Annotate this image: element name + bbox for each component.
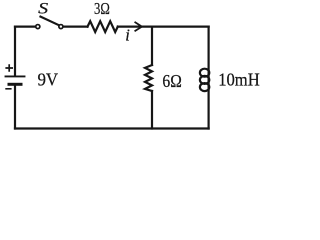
wire top-left: corner to switch	[15, 26, 35, 28]
resistor R1 3ohm zigzag	[88, 21, 118, 32]
wire: left vertical lower (battery to bottom corner)	[14, 85, 16, 128]
current arrow i	[135, 22, 142, 30]
battery plus sign	[5, 64, 13, 71]
switch contact circle left	[36, 25, 40, 29]
svg-text:9V: 9V	[38, 70, 59, 90]
svg-text:i: i	[125, 26, 130, 45]
wire: right vertical	[208, 27, 210, 129]
svg-text:6Ω: 6Ω	[162, 71, 181, 91]
wire: switch to resistor R1	[64, 26, 88, 28]
svg-text:10mH: 10mH	[218, 70, 260, 90]
resistor R2 6ohm vertical zigzag	[145, 65, 152, 91]
wire: middle branch upper	[151, 27, 153, 65]
inductor L1 coil loops	[200, 69, 209, 77]
battery minus sign	[5, 88, 11, 90]
svg-text:S: S	[38, 1, 48, 18]
switch contact circle right	[59, 25, 63, 29]
wire: resistor to top-right corner	[118, 26, 209, 28]
wire: middle branch lower	[151, 91, 153, 129]
battery B1 short thick plate	[9, 83, 21, 86]
svg-text:3Ω: 3Ω	[94, 0, 110, 18]
wire: left vertical upper (corner to battery)	[14, 27, 16, 76]
battery B1 long plate	[6, 75, 25, 77]
switch S lever	[41, 17, 59, 26]
wire: bottom horizontal	[15, 127, 209, 129]
